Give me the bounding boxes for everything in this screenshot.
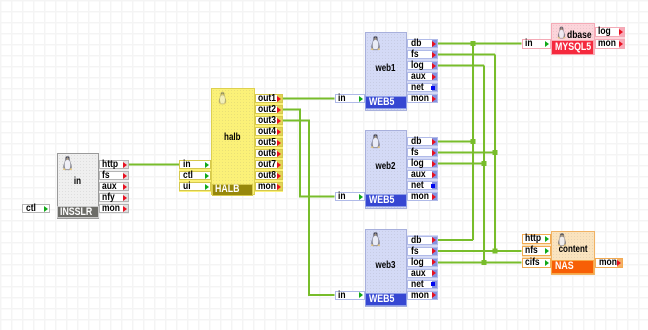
port halb.in [179, 160, 211, 169]
port halb.out3 [255, 116, 284, 125]
text web2 name [365, 161, 408, 172]
text inssl name "in" [57, 176, 100, 187]
label WEB5 of web3 [365, 293, 407, 306]
label WEB5 of web2 [365, 194, 407, 207]
icon tux web3 [369, 231, 382, 247]
component web2 box [365, 130, 408, 209]
icon tux dbase [556, 25, 567, 40]
port halb.ui [179, 182, 211, 191]
ports strip web3 right [407, 235, 438, 299]
port web2.aux [407, 170, 438, 179]
port web1.fs [407, 50, 438, 59]
text content name [551, 244, 595, 255]
port inssl.nfy [99, 193, 130, 202]
component inssl box [57, 153, 100, 219]
junction fs bus at web2 row [493, 150, 498, 155]
wire db bus vertical [472, 44, 474, 241]
port inssl.fs [99, 171, 130, 180]
port web3.db [407, 236, 438, 245]
wire web3.log to content.cifs [437, 262, 522, 264]
port web1.aux [407, 72, 438, 81]
port inssl.aux [99, 182, 130, 191]
component web3 box [365, 229, 408, 308]
port web1.net [407, 83, 438, 92]
port web3.in [335, 291, 365, 300]
port dbase.in [522, 39, 552, 49]
port inssl.ctl [22, 204, 50, 213]
junction db bus at web2 row [471, 139, 476, 144]
port inssl.http [99, 160, 130, 169]
icon tux halb [216, 91, 229, 105]
port dbase.log [595, 27, 625, 37]
port web1.mon [407, 94, 438, 103]
wire inssl.http to halb.in [129, 164, 179, 166]
icon tux content [556, 232, 568, 247]
label WEB5 of web1 [365, 96, 407, 109]
port halb.out8 [255, 171, 284, 180]
port content.cifs [522, 258, 552, 268]
port web2.in [335, 192, 365, 201]
port web1.db [407, 39, 438, 48]
port web2.mon [407, 192, 438, 201]
icon tux web2 [369, 133, 382, 149]
ports strip web2 right [407, 137, 438, 201]
component halb box [211, 88, 255, 195]
port web2.log [407, 159, 438, 168]
text web3 name [365, 260, 408, 271]
port web1.log [407, 61, 438, 70]
junction fs bus at nfs row [493, 249, 498, 254]
wire web1.log to log bus [437, 65, 484, 67]
port halb.mon [255, 182, 284, 191]
component dbase box [551, 23, 595, 55]
junction db bus at web1 row [471, 41, 476, 46]
port content.http [522, 234, 552, 244]
ports strip content left [522, 234, 552, 269]
junction log bus at web2 row [482, 161, 487, 166]
port web2.db [407, 137, 438, 146]
text dbase name [567, 30, 596, 41]
wire halb.out2 to web2.in [283, 110, 335, 197]
wire halb.out3 to web3.in [283, 121, 335, 296]
text web1 name [365, 63, 408, 74]
junction log bus at cifs row [482, 260, 487, 265]
port web3.log [407, 258, 438, 267]
port dbase.mon [595, 39, 625, 49]
label NAS [551, 260, 594, 274]
port halb.out1 [255, 94, 284, 103]
port content.nfs [522, 246, 552, 256]
port web2.net [407, 181, 438, 190]
wire log bus vertical [483, 66, 485, 263]
icon tux inssl [61, 155, 74, 171]
component content box [551, 231, 595, 275]
wire web1.fs to fs bus [437, 54, 495, 56]
label INSSLR [57, 206, 99, 218]
port web3.fs [407, 247, 438, 256]
label MYSQL5 [551, 40, 594, 55]
wire fs bus vertical [494, 55, 496, 252]
wire halb.out1 to web1.in [283, 98, 335, 100]
ports strip web1 right [407, 39, 438, 103]
wire web2.db to db bus [437, 141, 473, 143]
wire web3.db to db bus [437, 239, 473, 241]
ports strip inssl right [99, 160, 130, 214]
port halb.ctl [179, 171, 211, 180]
ports strip dbase right [595, 27, 625, 50]
text halb name [211, 132, 255, 143]
wire web1.db to dbase.in [437, 43, 522, 45]
port halb.out2 [255, 105, 284, 114]
icon tux web1 [369, 35, 382, 51]
ports strip halb left [179, 160, 211, 192]
port web3.aux [407, 269, 438, 278]
port halb.out7 [255, 160, 284, 169]
port web2.fs [407, 148, 438, 157]
port halb.out4 [255, 127, 284, 136]
component web1 box [365, 32, 408, 111]
label HALB [212, 184, 254, 196]
port inssl.mon [99, 204, 130, 213]
ports strip halb right [255, 94, 284, 192]
port content.mon [595, 258, 623, 268]
wire web2.fs to fs bus [437, 152, 495, 154]
wire web2.log to log bus [437, 163, 484, 165]
port web3.mon [407, 291, 438, 300]
port web1.in [335, 94, 365, 103]
port halb.out5 [255, 138, 284, 147]
port halb.out6 [255, 149, 284, 158]
wire web3.fs to content.nfs [437, 250, 522, 252]
port web3.net [407, 280, 438, 289]
